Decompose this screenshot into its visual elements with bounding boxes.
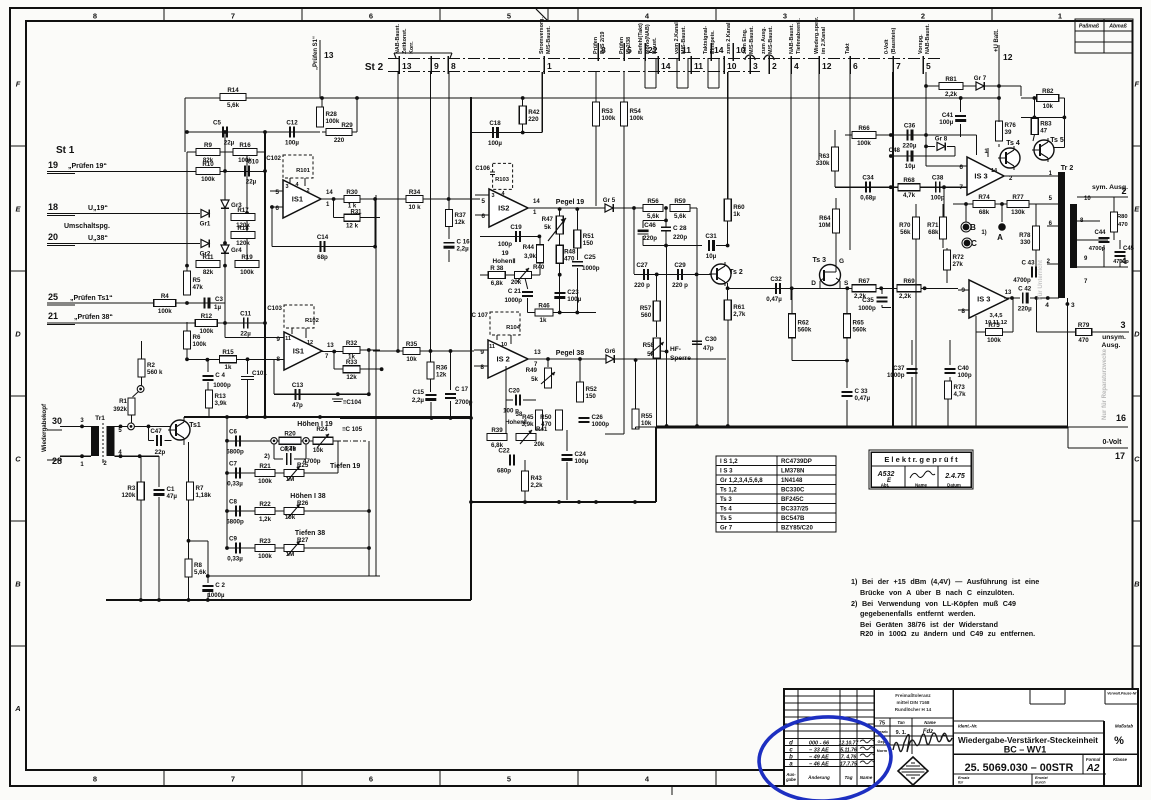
svg-text:14: 14 [661,61,671,71]
svg-text:8: 8 [961,308,965,315]
svg-text:Ts 4: Ts 4 [1006,140,1020,147]
svg-text:1N4148: 1N4148 [781,477,803,484]
svg-text:R 38: R 38 [490,265,504,272]
svg-text:im 2.Kanal: im 2.Kanal [821,27,827,54]
svg-text:I S 1,2: I S 1,2 [720,458,738,465]
svg-text:C44: C44 [1094,230,1106,236]
svg-text:100µ: 100µ [285,140,299,147]
svg-text:R73: R73 [954,384,966,391]
svg-text:Gr 8: Gr 8 [935,135,948,142]
svg-text:5: 5 [275,189,279,196]
svg-text:A2: A2 [1086,763,1100,774]
svg-text:R31: R31 [350,210,362,216]
svg-text:R60: R60 [733,204,745,211]
svg-text:Korr.: Korr. [409,41,415,54]
svg-text:R26: R26 [297,500,309,507]
svg-text:Paßmaß: Paßmaß [1079,24,1099,30]
svg-text:C13: C13 [292,382,304,389]
svg-text:17.7.75: 17.7.75 [840,762,857,768]
svg-text:12: 12 [307,340,313,346]
svg-text:100k: 100k [193,341,207,348]
svg-text:8: 8 [480,364,484,371]
svg-text:12k: 12k [455,219,466,226]
svg-text:R24: R24 [316,426,328,433]
svg-text:Freimaßtoleranz: Freimaßtoleranz [895,693,931,698]
svg-text:1000µ: 1000µ [208,593,225,599]
svg-text:U„38“: U„38“ [88,235,108,242]
svg-text:B IS 2/19: B IS 2/19 [600,32,606,54]
svg-text:(Baustein): (Baustein) [891,27,897,54]
svg-text:%: % [1114,735,1124,747]
svg-text:13: 13 [324,50,334,60]
svg-text:6: 6 [369,12,373,21]
svg-text:21: 21 [48,311,58,321]
svg-text:10µ: 10µ [905,163,916,170]
svg-text:R56: R56 [647,198,659,205]
svg-text:R6: R6 [193,334,201,341]
svg-text:82k: 82k [203,269,214,276]
svg-text:– 49 AE: – 49 AE [809,755,829,761]
svg-text:10k: 10k [285,514,296,521]
svg-text:1,18k: 1,18k [196,492,212,499]
svg-text:470: 470 [1118,222,1128,228]
svg-text:R78: R78 [1019,232,1031,239]
svg-text:R74: R74 [978,194,990,201]
svg-text:100µ: 100µ [575,458,589,465]
svg-text:0,68µ: 0,68µ [860,195,876,202]
svg-text:220: 220 [528,116,539,123]
svg-text:R57: R57 [640,305,652,312]
svg-text:3: 3 [1120,320,1125,330]
svg-text:R20 in 100Ω zu ändern und C4: R20 in 100Ω zu ändern und C49 zu entfern… [860,629,1035,638]
svg-text:G: G [839,258,844,265]
svg-text:8: 8 [451,61,456,71]
svg-text:St 2: St 2 [365,62,384,73]
svg-text:NAB-Baust.: NAB-Baust. [789,24,795,54]
svg-text:1000p: 1000p [213,382,231,389]
svg-text:12k: 12k [346,374,357,381]
svg-text:R79: R79 [1078,322,1090,329]
svg-text:100k: 100k [258,478,272,485]
svg-text:2,2µ: 2,2µ [457,246,470,253]
svg-text:Änderung: Änderung [807,774,830,780]
svg-text:E l e k t r. g e p r ü f t: E l e k t r. g e p r ü f t [884,455,958,464]
svg-text:R23: R23 [259,538,271,545]
svg-text:2): 2) [264,453,270,460]
svg-text:C5: C5 [213,120,221,127]
svg-text:C38: C38 [932,175,944,182]
svg-text:C6: C6 [229,428,237,435]
svg-text:R52: R52 [586,386,598,393]
svg-text:gegebenenfalls entfernt werd: gegebenenfalls entfernt werden. [860,609,975,618]
svg-text:20k: 20k [534,441,545,448]
svg-text:R13: R13 [215,393,227,400]
svg-text:C25: C25 [584,254,596,261]
svg-text:Für Unterricht: Für Unterricht [1038,260,1044,300]
svg-text:Höhen I 38: Höhen I 38 [290,493,326,500]
svg-text:Brücke von A über B nach: Brücke von A über B nach C einzulöten. [860,588,1014,597]
svg-text:10: 10 [501,342,507,348]
svg-text:14: 14 [991,168,998,174]
svg-text:LM378N: LM378N [781,468,804,475]
svg-text:47µ: 47µ [167,493,178,500]
svg-text:Abmaß: Abmaß [1108,24,1127,30]
svg-text:R44: R44 [523,244,535,251]
svg-text:3,4,5: 3,4,5 [990,313,1004,319]
svg-text:Tan: Tan [897,720,905,725]
svg-text:C 43: C 43 [1021,260,1035,267]
svg-text:10k: 10k [313,447,324,454]
svg-text:18: 18 [48,202,58,212]
svg-text:R16: R16 [239,142,251,149]
svg-text:2,2k: 2,2k [531,482,544,489]
svg-text:R72: R72 [953,254,965,261]
svg-text:C41: C41 [942,112,954,119]
svg-text:330: 330 [1020,239,1031,246]
svg-text:R81: R81 [945,76,957,83]
svg-text:Gr 7: Gr 7 [974,75,987,82]
svg-text:9. 1.: 9. 1. [896,730,907,736]
svg-text:Pegel 38: Pegel 38 [556,350,585,357]
svg-text:13: 13 [327,343,334,349]
svg-text:R22: R22 [259,501,271,508]
svg-text:C26: C26 [592,414,604,421]
svg-text:4,7k: 4,7k [954,391,967,398]
svg-text:D: D [15,330,21,339]
svg-text:14: 14 [533,199,540,205]
svg-text:R59: R59 [674,198,686,205]
svg-text:b: b [789,755,793,761]
svg-text:Einspeis.: Einspeis. [710,30,716,54]
svg-text:A: A [14,704,20,713]
svg-text:330k: 330k [816,160,830,167]
svg-text:R32: R32 [346,340,358,347]
svg-text:R35: R35 [406,341,418,348]
svg-text:1,2k: 1,2k [259,516,272,523]
svg-text:C7: C7 [229,461,237,468]
svg-text:4,7k: 4,7k [903,192,916,199]
svg-text:12k: 12k [436,372,447,379]
svg-text:6: 6 [481,213,485,220]
svg-text:F: F [16,80,21,89]
svg-text:000 - 66: 000 - 66 [809,741,830,747]
svg-text:IS2: IS2 [498,204,509,213]
svg-text:4: 4 [794,61,799,71]
svg-text:Ident.-Nr.: Ident.-Nr. [958,724,978,729]
svg-text:13: 13 [1005,290,1012,296]
svg-text:R54: R54 [630,108,642,115]
svg-text:R10: R10 [202,161,214,168]
svg-text:Bei Geräten 38/76 ist der Wi: Bei Geräten 38/76 ist der Widerstand [860,620,998,629]
svg-text:2,2k: 2,2k [899,293,912,300]
svg-text:100k: 100k [258,553,272,560]
svg-text:BZY85/C20: BZY85/C20 [781,525,813,532]
svg-text:R12: R12 [201,313,213,320]
svg-text:4700p: 4700p [1013,277,1031,284]
svg-text:R33: R33 [346,359,358,366]
svg-text:9: 9 [434,61,439,71]
svg-text:R51: R51 [583,233,595,240]
svg-text:B: B [15,580,21,589]
svg-text:Wiederg.sperr.: Wiederg.sperr. [814,16,820,54]
svg-text:C103: C103 [267,305,282,312]
svg-text:zum 2.Kanal: zum 2.Kanal [726,22,732,54]
svg-text:C15: C15 [413,389,425,396]
svg-text:– 33 AE: – 33 AE [809,748,829,754]
svg-text:3: 3 [783,12,787,21]
svg-text:M/S-Baust.: M/S-Baust. [546,26,552,54]
svg-text:R3: R3 [127,485,135,492]
svg-text:Sperre: Sperre [670,355,691,362]
svg-text:22p: 22p [155,449,166,456]
svg-text:C18: C18 [489,120,501,127]
svg-text:C 17: C 17 [455,386,469,393]
svg-text:R43: R43 [531,475,543,482]
svg-text:100p: 100p [498,241,512,248]
svg-text:12: 12 [1003,52,1013,62]
svg-text:10M: 10M [818,222,830,229]
svg-text:120k: 120k [122,492,136,499]
svg-text:0,47µ: 0,47µ [766,296,782,303]
svg-text:Tr 2: Tr 2 [1061,165,1074,172]
svg-text:Tiefen 19: Tiefen 19 [330,463,360,470]
svg-text:56k: 56k [900,229,911,236]
svg-text:150: 150 [586,393,597,400]
svg-text:C9: C9 [229,536,237,543]
svg-text:BC547B: BC547B [781,515,805,522]
svg-text:1000p: 1000p [858,305,876,312]
svg-text:Ts 1,2: Ts 1,2 [720,487,737,494]
svg-text:C35: C35 [862,297,874,304]
svg-text:RC4739DP: RC4739DP [781,458,812,465]
svg-text:1M: 1M [286,476,295,483]
svg-text:R37: R37 [455,212,467,219]
svg-text:470: 470 [1078,337,1089,344]
svg-text:Ersatz: Ersatz [958,776,969,780]
svg-text:IS 2: IS 2 [497,355,510,364]
svg-text:R69: R69 [903,278,915,285]
svg-text:Ts 3: Ts 3 [720,496,732,503]
svg-text:Tiefen 38: Tiefen 38 [295,530,325,537]
svg-text:C 33: C 33 [855,388,869,395]
svg-text:C 21: C 21 [508,288,522,295]
svg-text:560k: 560k [853,327,867,334]
svg-text:4700p: 4700p [1113,259,1129,265]
svg-text:68k: 68k [928,229,939,236]
svg-text:R62: R62 [798,320,810,327]
svg-text:Gr 7: Gr 7 [720,525,733,532]
svg-text:C8: C8 [229,499,237,506]
svg-text:R39: R39 [491,427,503,434]
svg-text:IS 3: IS 3 [974,172,987,181]
svg-text:C36: C36 [904,123,916,130]
svg-text:C48: C48 [889,147,901,154]
svg-text:120k: 120k [236,240,250,247]
svg-text:„Prüfen 38“: „Prüfen 38“ [74,314,113,321]
svg-text:R76: R76 [1005,122,1017,129]
svg-text:C32: C32 [770,276,782,283]
svg-text:R71: R71 [927,222,939,229]
svg-text:Formal: Formal [1086,757,1101,762]
svg-text:IS 3: IS 3 [977,295,990,304]
svg-text:560: 560 [641,312,652,319]
svg-text:Tr1: Tr1 [95,415,105,422]
svg-text:≡C 105: ≡C 105 [342,426,363,433]
svg-text:zum Ausg.: zum Ausg. [761,26,767,54]
svg-text:R65: R65 [853,320,865,327]
svg-text:3: 3 [753,61,758,71]
svg-text:220 p: 220 p [672,282,688,289]
svg-text:Prüfen: Prüfen [619,37,625,54]
svg-text:R75: R75 [988,322,1000,329]
svg-text:C106: C106 [475,165,490,172]
svg-text:20k: 20k [511,279,522,286]
svg-text:5k: 5k [647,351,654,358]
svg-text:1000p: 1000p [582,265,600,272]
svg-text:NAB-Baust.: NAB-Baust. [395,24,401,54]
svg-text:C 107: C 107 [471,312,488,319]
svg-text:R68: R68 [903,177,915,184]
svg-text:C⁉49: C⁉49 [280,446,296,453]
svg-text:R66: R66 [858,125,870,132]
svg-text:100p: 100p [931,195,945,202]
svg-text:R11: R11 [202,254,214,261]
svg-text:d: d [789,741,793,747]
svg-text:R102: R102 [305,318,319,324]
svg-text:5: 5 [507,12,511,21]
svg-text:mittel DIN 7168: mittel DIN 7168 [897,700,930,705]
svg-text:28: 28 [52,456,62,466]
svg-text:12.10.77: 12.10.77 [839,741,859,747]
svg-text:5k: 5k [531,376,538,383]
svg-text:B: B [970,223,976,232]
svg-text:S: S [844,280,849,287]
svg-text:1: 1 [1058,12,1062,21]
svg-text:220p: 220p [673,234,687,241]
svg-text:130k: 130k [1011,209,1025,216]
svg-text:BC337/25: BC337/25 [781,506,809,513]
svg-text:≡C104: ≡C104 [343,399,362,406]
svg-text:17: 17 [1115,451,1125,461]
svg-text:R53: R53 [602,108,614,115]
svg-text:13: 13 [402,61,412,71]
svg-text:BC330C: BC330C [781,487,805,494]
svg-text:Wiedergabekopf: Wiedergabekopf [41,403,48,452]
svg-text:7. 4.76: 7. 4.76 [841,755,857,761]
svg-text:30: 30 [52,416,62,426]
svg-text:C34: C34 [862,175,874,182]
svg-text:BC – WV1: BC – WV1 [1004,745,1047,755]
svg-text:C19: C19 [510,224,522,231]
svg-text:R27: R27 [297,537,309,544]
svg-text:R83: R83 [1040,121,1052,128]
svg-text:C11: C11 [240,311,252,318]
svg-text:0,47µ: 0,47µ [855,395,871,402]
svg-text:R21: R21 [259,463,271,470]
svg-text:D: D [811,280,816,287]
svg-text:R14: R14 [227,87,239,94]
svg-text:Gr1: Gr1 [200,221,211,228]
svg-text:Vorspg.: Vorspg. [918,34,924,54]
svg-text:St 1: St 1 [56,145,75,156]
svg-text:C1: C1 [167,486,175,493]
svg-text:HF-: HF- [670,346,681,353]
svg-text:2: 2 [306,188,309,194]
svg-text:R15: R15 [222,349,234,356]
svg-text:A: A [997,233,1003,242]
svg-text:100k: 100k [326,118,340,125]
svg-text:2,7k: 2,7k [733,311,746,318]
svg-text:2,2k: 2,2k [945,91,958,98]
svg-text:unsym.: unsym. [1102,334,1126,341]
svg-text:C 42: C 42 [1018,286,1032,293]
svg-text:5,6k: 5,6k [227,102,240,109]
svg-text:3: 3 [1071,302,1075,309]
svg-text:1000p: 1000p [592,421,610,428]
svg-text:BF245C: BF245C [781,496,804,503]
svg-text:C 2: C 2 [215,582,225,589]
svg-text:Ts 3: Ts 3 [813,257,827,264]
svg-text:„Prüfen S1“: „Prüfen S1“ [313,36,319,70]
svg-text:7: 7 [959,184,963,191]
svg-text:10k: 10k [641,420,652,427]
svg-text:100k: 100k [201,176,215,183]
svg-text:6800p: 6800p [226,519,244,526]
svg-text:R47: R47 [542,216,554,223]
svg-text:R63: R63 [818,153,830,160]
svg-text:„Prüfen Ts1“: „Prüfen Ts1“ [70,295,113,302]
svg-text:R36: R36 [436,365,448,372]
svg-text:HohenⅡ: HohenⅡ [505,419,527,426]
svg-text:25. 5069.030 – 00STR: 25. 5069.030 – 00STR [965,762,1074,774]
svg-text:5,6k: 5,6k [194,569,207,576]
svg-text:IS1: IS1 [293,347,304,356]
svg-text:R28: R28 [326,111,338,118]
svg-text:Nur für Reparaturzwecke: Nur für Reparaturzwecke [1102,348,1108,420]
svg-text:B: B [1134,580,1140,589]
svg-text:R17: R17 [237,207,249,214]
svg-text:C: C [15,455,21,464]
svg-text:M/S-Baust.: M/S-Baust. [681,26,687,54]
svg-text:R9: R9 [204,142,212,149]
svg-text:22µ: 22µ [224,140,235,147]
svg-text:150: 150 [583,240,594,247]
svg-text:Ts 2: Ts 2 [729,269,743,276]
svg-text:R50: R50 [540,414,552,421]
svg-text:Verwalt.Pause-Nr: Verwalt.Pause-Nr [1107,692,1137,696]
svg-text:10k: 10k [1043,103,1054,110]
svg-text:1000p: 1000p [504,297,522,304]
svg-text:R41: R41 [536,426,548,433]
svg-text:38: 38 [516,412,523,418]
svg-text:7: 7 [231,775,235,784]
svg-text:13: 13 [534,350,541,356]
svg-text:3: 3 [285,184,288,190]
svg-text:392k: 392k [113,406,127,413]
svg-text:Name: Name [915,483,928,488]
svg-text:„Prüfen 19“: „Prüfen 19“ [68,163,107,170]
svg-text:C29: C29 [674,262,686,269]
svg-text:für: für [958,781,964,785]
svg-text:14: 14 [326,190,333,196]
svg-text:100k: 100k [602,115,616,122]
svg-text:100k: 100k [240,269,254,276]
svg-text:27k: 27k [953,261,964,268]
svg-text:2: 2 [772,61,777,71]
svg-text:R49: R49 [526,367,538,374]
svg-text:R64: R64 [819,215,831,222]
svg-text:– 46 AE: – 46 AE [809,762,829,768]
